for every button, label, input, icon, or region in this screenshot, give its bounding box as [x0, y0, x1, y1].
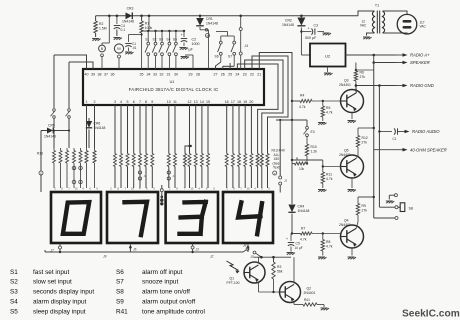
resistor R6 27k — [354, 63, 374, 87]
AC plug 117VAC — [383, 11, 427, 34]
svg-text:4.7k: 4.7k — [326, 110, 333, 114]
svg-text:24: 24 — [235, 73, 239, 77]
svg-text:500 µF: 500 µF — [305, 36, 317, 40]
output 40-OHM SPEAKER — [379, 149, 395, 151]
svg-text:S3: S3 — [159, 38, 163, 42]
wire RADIO GND node — [356, 84, 396, 207]
svg-text:18: 18 — [237, 100, 241, 104]
wire Q3 collector — [355, 86, 358, 93]
svg-text:9: 9 — [151, 100, 153, 104]
svg-text:27k: 27k — [362, 140, 368, 144]
svg-text:J2: J2 — [210, 255, 214, 259]
svg-text:sleep display input: sleep display input — [33, 308, 86, 315]
svg-text:S1: S1 — [145, 38, 149, 42]
wire Q3 emitter to ground — [351, 113, 353, 120]
ground below R11 — [318, 190, 327, 192]
svg-text:20: 20 — [249, 100, 253, 104]
svg-text:S7: S7 — [228, 55, 232, 59]
resistors R13.. left group — [37, 148, 82, 188]
wire bus y120 to E3 — [276, 119, 307, 121]
wire CR1 to pin 28 node — [200, 29, 209, 70]
connector ring P — [206, 34, 210, 38]
svg-text:U2: U2 — [325, 54, 331, 59]
svg-text:R41: R41 — [304, 298, 310, 302]
svg-text:6: 6 — [133, 100, 135, 104]
diode CR4 1N4148 — [288, 205, 309, 234]
wire Q1 emitter to Q2 base — [259, 282, 280, 294]
svg-text:J8: J8 — [243, 244, 247, 248]
svg-text:tone amplitude control: tone amplitude control — [142, 308, 205, 315]
wire pin 23 loop — [245, 60, 283, 154]
wire pin 25 stub — [229, 63, 231, 69]
transformer T1 — [372, 4, 384, 34]
svg-text:1N4148: 1N4148 — [282, 23, 294, 27]
junction dots on rail — [108, 15, 303, 18]
svg-text:7: 7 — [139, 100, 141, 104]
output RADIO A+ — [403, 53, 408, 57]
wire rail to transformer secondary — [358, 11, 375, 36]
switch S4 — [166, 31, 171, 69]
svg-text:Text): Text) — [273, 166, 280, 170]
svg-text:RADIO GND: RADIO GND — [410, 83, 434, 88]
ground near pin 29 — [181, 55, 194, 69]
svg-text:1N4148: 1N4148 — [94, 126, 106, 130]
svg-text:C5: C5 — [296, 242, 300, 246]
svg-text:33: 33 — [153, 73, 157, 77]
svg-text:40: 40 — [85, 73, 89, 77]
svg-text:S5: S5 — [10, 308, 18, 315]
ground transformer secondary — [363, 37, 372, 39]
wire R9 top — [358, 196, 375, 198]
svg-text:VAC: VAC — [360, 24, 367, 28]
switch S7 — [228, 36, 236, 66]
svg-text:27: 27 — [214, 73, 218, 77]
wire pins 1-2 join left group — [87, 118, 95, 148]
ground below C1 — [125, 52, 134, 54]
svg-text:32: 32 — [160, 73, 164, 77]
svg-text:4: 4 — [120, 100, 122, 104]
wire R12 top to rail — [358, 127, 375, 129]
wire display drops — [59, 244, 250, 254]
diode CR5 1N4148 — [41, 124, 69, 139]
svg-text:S8: S8 — [116, 289, 124, 296]
svg-text:4.7k: 4.7k — [299, 105, 306, 109]
connector ring C — [39, 140, 43, 192]
svg-text:11: 11 — [173, 100, 177, 104]
potentiometer R41 tone amplitude — [303, 298, 324, 307]
svg-text:alarm tone on/off: alarm tone on/off — [142, 289, 190, 296]
svg-text:4: 4 — [82, 187, 84, 191]
wire down right rail — [373, 63, 375, 219]
wire pin 12 jog to extra digit line — [185, 145, 191, 188]
display DS1 digit 0 — [51, 192, 101, 243]
svg-text:S5: S5 — [173, 38, 177, 42]
display DS4 digit 4 — [223, 192, 273, 243]
jumper E2 — [66, 109, 71, 119]
svg-text:S6: S6 — [215, 55, 219, 59]
wire Q5 base — [291, 159, 341, 168]
svg-text:J5: J5 — [251, 255, 255, 259]
svg-text:2N4401: 2N4401 — [339, 83, 351, 87]
wires left group to display — [85, 148, 96, 188]
svg-text:seconds display input: seconds display input — [33, 289, 94, 296]
svg-text:38: 38 — [98, 73, 102, 77]
ground below U2 — [324, 67, 333, 76]
IC U1 FAIRCHILD 3817A/C DIGITAL CLOCK — [83, 69, 264, 105]
svg-text:26: 26 — [221, 73, 225, 77]
wire to SPEAKER — [372, 55, 395, 64]
wire Q3 collector up — [355, 92, 357, 94]
svg-text:12: 12 — [188, 100, 192, 104]
svg-text:15: 15 — [206, 100, 210, 104]
svg-text:0.1: 0.1 — [121, 28, 126, 32]
svg-text:S2: S2 — [153, 38, 157, 42]
capacitor C5 10uF — [286, 234, 303, 252]
svg-text:16: 16 — [225, 100, 229, 104]
svg-text:6: 6 — [89, 187, 91, 191]
light arrows into Q1 — [227, 261, 240, 274]
transistor Q4 2N4401 — [339, 219, 364, 249]
output RADIO GND — [403, 84, 408, 88]
svg-text:2: 2 — [54, 187, 56, 191]
svg-text:slow set input: slow set input — [33, 279, 72, 286]
resistor R1 100k — [140, 16, 153, 35]
ground below R5 — [318, 123, 327, 125]
svg-text:J1: J1 — [284, 179, 288, 183]
svg-text:J7: J7 — [51, 249, 55, 253]
svg-text:alarm display input: alarm display input — [33, 299, 87, 306]
svg-text:10: 10 — [190, 187, 194, 191]
jumper rings on digit lines — [138, 145, 192, 180]
svg-text:RADIO A+: RADIO A+ — [410, 53, 430, 58]
wire Q5 emitter ground — [351, 178, 353, 188]
display pin numbers — [54, 187, 270, 191]
display DS3 digit 3 — [166, 192, 218, 243]
svg-text:+: + — [308, 27, 310, 31]
ground below R8 — [318, 257, 327, 259]
svg-text:R5: R5 — [326, 106, 330, 110]
svg-text:J2: J2 — [144, 174, 148, 178]
ground below C5 — [287, 253, 296, 255]
svg-text:37: 37 — [104, 73, 108, 77]
svg-text:4: 4 — [254, 187, 256, 191]
jumper E1 — [51, 109, 56, 119]
svg-text:13: 13 — [194, 100, 198, 104]
svg-text:8: 8 — [61, 187, 63, 191]
svg-text:3: 3 — [114, 100, 116, 104]
connector S9 (snooze bar) — [239, 16, 248, 69]
svg-text:22: 22 — [250, 73, 254, 77]
svg-text:J4: J4 — [244, 44, 249, 48]
svg-text:CR3: CR3 — [127, 7, 134, 11]
wire Q2 emitter to R41 — [294, 301, 303, 305]
wire to E3 — [306, 120, 308, 126]
svg-text:+: + — [181, 33, 184, 37]
svg-text:R2: R2 — [99, 22, 103, 26]
ground right of C3 — [323, 33, 332, 35]
svg-text:8: 8 — [145, 100, 147, 104]
transistor Q1 FPT-100 phototransistor — [227, 262, 266, 285]
capacitor C2 1000uF — [181, 31, 200, 52]
svg-text:4.7k: 4.7k — [326, 177, 333, 181]
wire feeder to lower circuits — [291, 100, 293, 164]
wire Q1 collector — [258, 257, 260, 263]
diode CR6 1N4148 — [86, 118, 106, 148]
resistor R3 56k — [272, 262, 283, 292]
ground below R41 — [321, 308, 330, 310]
ground below Q3 — [348, 121, 357, 123]
svg-text:7: 7 — [240, 187, 242, 191]
ground below Q4 — [348, 257, 357, 259]
svg-text:R9: R9 — [362, 204, 366, 208]
svg-text:R7: R7 — [301, 227, 305, 231]
wire rail to C5 node — [273, 257, 275, 262]
svg-text:9: 9 — [153, 187, 155, 191]
wire rail to pin 38 — [108, 16, 110, 43]
svg-text:4: 4 — [198, 187, 200, 191]
switch S5 — [173, 31, 178, 69]
svg-text:fast set input: fast set input — [33, 269, 69, 276]
svg-text:J6: J6 — [133, 248, 137, 252]
svg-text:R4: R4 — [300, 94, 304, 98]
svg-text:19: 19 — [243, 100, 247, 104]
svg-text:4.7k: 4.7k — [300, 238, 307, 242]
svg-text:R41: R41 — [116, 308, 128, 315]
svg-text:14: 14 — [200, 100, 204, 104]
svg-text:P: P — [207, 34, 209, 38]
ground below Q5 — [348, 190, 357, 192]
svg-text:30: 30 — [174, 73, 178, 77]
svg-text:10: 10 — [167, 100, 171, 104]
svg-text:7: 7 — [125, 187, 127, 191]
wire tone circuit top rail — [254, 256, 291, 259]
resistors R13-R40 (150 ohm segment resistors) — [114, 154, 253, 167]
svg-text:R10: R10 — [311, 145, 317, 149]
wire pin 24 loop — [237, 64, 278, 154]
svg-text:J9: J9 — [103, 255, 107, 259]
svg-text:34: 34 — [147, 73, 151, 77]
wire switch bank rail — [141, 16, 185, 32]
svg-text:C1: C1 — [393, 137, 397, 141]
resistor R12 27k — [356, 128, 368, 152]
svg-text:+: + — [274, 171, 276, 175]
svg-text:E3: E3 — [311, 130, 315, 134]
svg-text:1.5M: 1.5M — [99, 27, 107, 31]
display DS2 digit 7 — [107, 192, 158, 243]
capacitor C1 .01 — [125, 35, 136, 52]
capacitor C4 0.1 — [114, 16, 126, 36]
resistor R7 4.7k — [292, 227, 312, 242]
capacitor C3 500uF — [300, 24, 324, 40]
diode CR1 1N4148 — [196, 16, 218, 30]
svg-text:R8: R8 — [326, 240, 330, 244]
svg-text:.01: .01 — [132, 46, 137, 50]
svg-text:CR1: CR1 — [206, 17, 213, 21]
wire pin 22 loop — [252, 56, 288, 154]
diode CR3 1N4148 — [122, 7, 134, 24]
svg-text:C2: C2 — [192, 38, 197, 42]
ground below C2 — [180, 48, 189, 50]
svg-text:SPEAKER: SPEAKER — [410, 60, 430, 65]
svg-text:C3: C3 — [314, 24, 318, 28]
svg-text:27k: 27k — [362, 208, 368, 212]
legend switch functions — [10, 269, 205, 316]
svg-text:1: 1 — [86, 100, 88, 104]
ground at S8 — [386, 201, 395, 203]
svg-text:+: + — [286, 237, 288, 241]
svg-text:SeekIC.com: SeekIC.com — [402, 309, 460, 320]
svg-text:9V: 9V — [117, 47, 122, 51]
wire U2 output to RADIO A+ — [346, 54, 396, 57]
svg-text:4.7k: 4.7k — [326, 244, 333, 248]
ground below R2 — [92, 39, 101, 41]
wire to 40-ohm speaker arrow — [374, 149, 396, 151]
switch S1 — [145, 31, 150, 69]
wire R1 bottom node — [129, 33, 143, 69]
svg-text:27k: 27k — [360, 75, 366, 79]
svg-text:S4: S4 — [166, 38, 170, 42]
capacitor C7 0.1 coupling — [378, 128, 397, 141]
indicator DS B — [99, 43, 110, 69]
diode CR2 1N4148 — [282, 16, 305, 55]
svg-text:R3: R3 — [277, 265, 281, 269]
wire pin 1 — [86, 105, 88, 120]
wire Q4 base — [291, 232, 341, 234]
svg-text:29: 29 — [189, 73, 193, 77]
svg-text:10: 10 — [246, 187, 250, 191]
connector J6 — [103, 248, 137, 259]
transistor Q2 2N4401 — [280, 282, 316, 303]
svg-text:S7: S7 — [116, 279, 124, 286]
resistors on extra drops — [184, 154, 270, 167]
svg-text:17: 17 — [231, 100, 235, 104]
svg-text:S2: S2 — [10, 279, 18, 286]
svg-text:J1: J1 — [172, 174, 176, 178]
svg-text:FAIRCHILD 3817A/C DIGITAL CLOC: FAIRCHILD 3817A/C DIGITAL CLOCK IC — [129, 87, 219, 92]
resistor R9 27k — [356, 197, 367, 222]
wire pin 40 loop to display 1 — [54, 55, 87, 69]
wire J1 column — [279, 120, 281, 176]
resistor R5 4.7k — [321, 101, 333, 121]
wires S6 S7 to pins — [216, 62, 241, 69]
wire pin 21 loop outer — [259, 53, 292, 121]
svg-text:9: 9 — [268, 187, 270, 191]
svg-text:S8: S8 — [409, 207, 413, 211]
svg-text:R13: R13 — [37, 152, 43, 156]
svg-text:CR5: CR5 — [48, 124, 55, 128]
svg-text:8: 8 — [117, 187, 119, 191]
wire pin 2 — [94, 105, 96, 118]
wire R6 top to rail — [356, 69, 374, 71]
output SPEAKER — [403, 61, 408, 65]
svg-text:S6: S6 — [116, 269, 124, 276]
switch S6 — [215, 36, 223, 62]
svg-text:2: 2 — [94, 100, 96, 104]
wire pin 39 loop — [69, 62, 93, 69]
svg-text:VAC: VAC — [420, 25, 427, 29]
svg-text:8: 8 — [176, 187, 178, 191]
svg-text:31: 31 — [167, 73, 171, 77]
svg-text:9: 9 — [213, 187, 215, 191]
regulator U2 — [301, 44, 345, 67]
label R13-R40 ALL 150 ohm — [272, 149, 285, 170]
colon LED dots — [160, 185, 163, 206]
switch S3 — [159, 31, 164, 69]
wires IC pins 3-20 to display segment inputs — [115, 105, 251, 188]
switch S2 — [152, 31, 157, 69]
connector ring T — [273, 171, 288, 193]
wire CR4 column — [291, 164, 293, 205]
wire display commons rail — [45, 250, 243, 252]
svg-text:25: 25 — [228, 73, 232, 77]
svg-text:R12: R12 — [362, 136, 368, 140]
svg-text:alarm output on/off: alarm output on/off — [142, 299, 195, 306]
wire Q2 collector up — [293, 257, 295, 283]
resistor R10 1.2k — [305, 137, 317, 164]
svg-text:S4: S4 — [10, 299, 18, 306]
svg-text:2: 2 — [110, 187, 112, 191]
resistor R2 1.5M — [94, 16, 107, 37]
transistor Q5 2N4401 — [339, 149, 364, 179]
wire rail to jumper J8 — [243, 244, 259, 260]
wire top supply rail — [96, 15, 358, 17]
indicator lamp 9V — [114, 44, 123, 69]
svg-text:2N4401: 2N4401 — [304, 291, 316, 295]
svg-text:B: B — [101, 47, 104, 51]
svg-text:56k: 56k — [277, 269, 283, 273]
resistor R11a 10k horizontal — [292, 157, 308, 171]
svg-text:28: 28 — [196, 73, 200, 77]
svg-text:1N4148: 1N4148 — [298, 209, 310, 213]
svg-text:35: 35 — [140, 73, 144, 77]
svg-text:7: 7 — [68, 187, 70, 191]
wire pin 26 stub — [222, 66, 224, 69]
svg-text:U1: U1 — [170, 80, 175, 84]
output RADIO AUDIO — [405, 130, 410, 134]
svg-text:39: 39 — [91, 73, 95, 77]
wire Q4 emitter — [351, 248, 353, 256]
svg-text:36: 36 — [111, 73, 115, 77]
resistor R8 4.7k — [321, 234, 333, 256]
wire extra drops to display 4 — [258, 167, 268, 189]
svg-text:1000: 1000 — [192, 42, 200, 46]
svg-text:21: 21 — [257, 73, 261, 77]
wire Q3 base — [341, 86, 356, 93]
switch S8 pushbutton — [374, 194, 413, 220]
resistor R4 4.7k — [292, 94, 341, 110]
connector rings left group — [72, 166, 82, 184]
svg-text:1.2k: 1.2k — [311, 149, 318, 153]
svg-text:J3: J3 — [196, 248, 200, 252]
wire node below CR5 — [41, 129, 70, 148]
svg-text:alarm off input: alarm off input — [142, 269, 183, 276]
jumper E3 — [304, 126, 315, 136]
connector J7 — [51, 246, 62, 253]
ground below C4 — [113, 38, 122, 40]
wire left column continues — [53, 118, 55, 128]
svg-text:snooze input: snooze input — [142, 279, 178, 286]
svg-text:10 µF: 10 µF — [295, 246, 303, 250]
wire Q4 collector — [356, 222, 358, 228]
wire Q5 collector to R12 — [356, 152, 358, 158]
transistor Q3 2N4401 — [339, 79, 364, 113]
svg-text:1N4148: 1N4148 — [122, 20, 134, 24]
svg-text:C: C — [40, 171, 42, 175]
svg-text:5: 5 — [127, 100, 129, 104]
svg-text:µF: µF — [189, 48, 194, 52]
svg-text:8: 8 — [233, 187, 235, 191]
svg-text:S9: S9 — [116, 299, 124, 306]
